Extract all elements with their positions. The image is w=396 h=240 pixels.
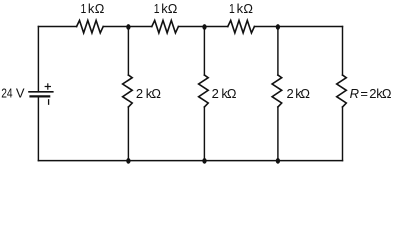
svg-text:=: = [360,86,368,101]
svg-text:Ω: Ω [227,86,237,101]
svg-text:Ω: Ω [243,1,253,16]
svg-text:R: R [350,86,359,101]
svg-text:2: 2 [136,86,143,101]
svg-text:24: 24 [1,86,12,101]
svg-text:Ω: Ω [300,86,310,101]
svg-text:Ω: Ω [382,86,392,101]
svg-text:2: 2 [212,86,219,101]
svg-text:1: 1 [229,1,235,16]
svg-text:Ω: Ω [151,86,161,101]
svg-text:1: 1 [81,1,87,16]
svg-text:Ω: Ω [168,1,178,16]
svg-text:Ω: Ω [95,1,105,16]
svg-text:1: 1 [154,1,160,16]
svg-text:2: 2 [287,86,294,101]
svg-text:V: V [16,86,25,101]
